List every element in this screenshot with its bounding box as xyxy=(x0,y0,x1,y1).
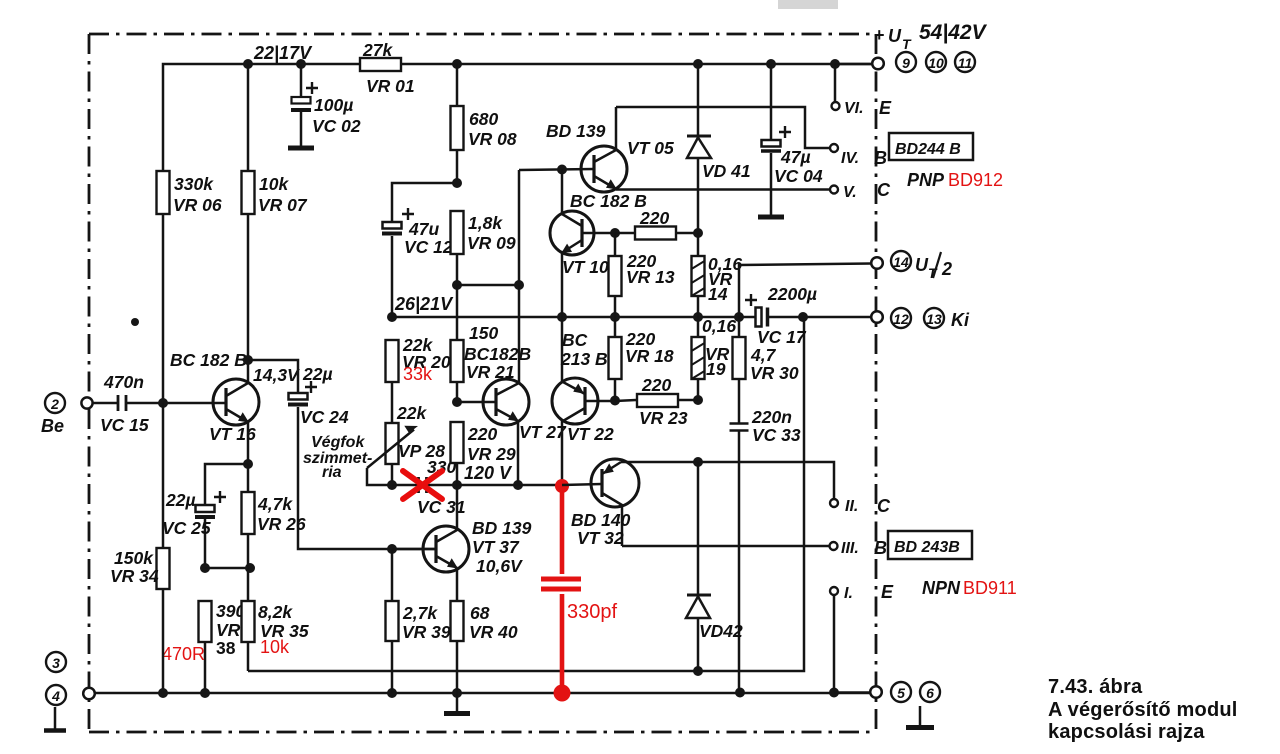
svg-text:VR 29: VR 29 xyxy=(467,444,516,464)
svg-text:VR 08: VR 08 xyxy=(468,129,517,149)
red capacitor plates xyxy=(541,579,581,589)
svg-text:VT 22: VT 22 xyxy=(567,424,614,444)
junction mid rail at VR14/VR19 xyxy=(693,312,703,322)
resistor VR21 150 xyxy=(456,285,459,340)
ground below VR40 xyxy=(456,693,459,712)
junction 120V rail at VR29/VT37 xyxy=(452,480,462,490)
svg-text:680: 680 xyxy=(469,109,498,129)
svg-text:7.43. ábra: 7.43. ábra xyxy=(1048,676,1143,698)
red junction on ground rail xyxy=(554,685,571,702)
svg-text:ria: ria xyxy=(322,464,342,481)
wire VR08 bottom node to VC12 xyxy=(392,183,457,222)
svg-text:14: 14 xyxy=(708,284,728,304)
svg-text:VR 13: VR 13 xyxy=(626,267,675,287)
wire: +UT top supply rail xyxy=(163,64,872,171)
resistor VR08 680 xyxy=(456,64,459,106)
svg-text:VR 39: VR 39 xyxy=(402,622,451,642)
capacitor VC24 22u electrolytic xyxy=(248,360,298,393)
ground symbol bottom left xyxy=(54,707,57,729)
transistor VT10 BC182B xyxy=(550,211,594,255)
svg-text:VC 12: VC 12 xyxy=(404,237,453,257)
wire pin I to ground rail xyxy=(833,595,836,692)
resistor VR09 1,8k xyxy=(451,211,464,254)
junction VR19 bottom node xyxy=(693,395,703,405)
pin IV open circle xyxy=(830,144,838,152)
svg-text:14: 14 xyxy=(893,254,909,270)
svg-text:VR 09: VR 09 xyxy=(467,233,516,253)
ground below VC04 xyxy=(758,215,784,220)
svg-text:Be: Be xyxy=(41,416,64,436)
junction mid rail at VR30 / terminal 14 branch xyxy=(734,312,744,322)
capacitor VC33 220n xyxy=(730,424,749,431)
terminal 5 circled number xyxy=(891,682,911,702)
svg-text:150: 150 xyxy=(469,323,498,343)
junction VR08/VR09/VC12 xyxy=(452,178,462,188)
junction top rail at VC04 xyxy=(766,59,776,69)
svg-text:213 B: 213 B xyxy=(560,349,608,369)
svg-text:4,7k: 4,7k xyxy=(257,494,293,514)
svg-text:VR: VR xyxy=(216,620,241,640)
resistor VR30 4,7 xyxy=(738,317,741,337)
svg-text:3: 3 xyxy=(52,655,60,671)
capacitor VC12 47u electrolytic xyxy=(383,222,402,229)
svg-text:2200µ: 2200µ xyxy=(767,284,817,304)
terminal 12 open circle xyxy=(871,311,883,323)
diode VD41 xyxy=(697,64,700,136)
junction rail A at VD42 xyxy=(693,666,703,676)
svg-text:VT 27: VT 27 xyxy=(519,422,567,442)
svg-text:BD 243B: BD 243B xyxy=(894,539,960,556)
junction VT10 base node xyxy=(610,228,620,238)
pin III open circle xyxy=(830,542,838,550)
svg-text:VC 04: VC 04 xyxy=(774,166,823,186)
junction rail B at VC33 column xyxy=(735,688,745,698)
svg-text:VT 32: VT 32 xyxy=(577,528,624,548)
resistor VR07 10k xyxy=(242,171,255,214)
junction rail B at pin I xyxy=(829,688,839,698)
svg-text:8,2k: 8,2k xyxy=(258,602,293,622)
wire link emitter divider node xyxy=(205,567,250,570)
svg-text:47u: 47u xyxy=(408,219,439,239)
ground below VC02 xyxy=(288,146,314,151)
resistor VR18 220 xyxy=(614,317,617,337)
svg-text:II.: II. xyxy=(845,498,858,515)
box BD244B xyxy=(889,133,973,160)
svg-text:VT 05: VT 05 xyxy=(627,138,674,158)
wire 120V rail xyxy=(457,484,562,487)
junction top rail at VR08 xyxy=(452,59,462,69)
svg-text:I.: I. xyxy=(844,585,853,602)
svg-text:11: 11 xyxy=(958,55,973,71)
resistor VR13 220 xyxy=(614,233,617,256)
svg-text:38: 38 xyxy=(216,638,236,658)
resistor VR35 8,2k xyxy=(247,568,250,601)
svg-text:33k: 33k xyxy=(403,364,433,384)
terminal 12 circled number xyxy=(891,308,911,328)
capacitor VC31 330 (crossed out) xyxy=(392,484,418,487)
svg-text:10,6V: 10,6V xyxy=(476,556,523,576)
transistor VT16 BC182B xyxy=(213,379,259,425)
svg-text:6: 6 xyxy=(926,685,934,701)
junction VT22 base node xyxy=(610,396,620,406)
wire VT32 emitter to pin II xyxy=(621,462,834,499)
svg-text:22k: 22k xyxy=(396,403,427,423)
svg-text:10: 10 xyxy=(928,55,944,71)
pin VI open circle xyxy=(832,102,840,110)
junction VR26/VR35 node xyxy=(245,563,255,573)
wire ground rail B xyxy=(94,692,870,695)
svg-text:kapcsolási rajza: kapcsolási rajza xyxy=(1048,721,1205,743)
svg-text:220: 220 xyxy=(641,375,671,395)
svg-text:150k: 150k xyxy=(114,548,154,568)
svg-text:C: C xyxy=(877,180,891,200)
svg-text:VR 30: VR 30 xyxy=(750,363,799,383)
svg-text:1,8k: 1,8k xyxy=(468,213,503,233)
junction 120V rail at VP28 xyxy=(387,480,397,490)
pin II open circle xyxy=(830,499,838,507)
terminal 3 circled number xyxy=(46,652,66,672)
wire top rail to terminal 9 xyxy=(835,63,872,66)
terminal 10 circled number xyxy=(926,52,946,72)
svg-text:BD 139: BD 139 xyxy=(472,518,532,538)
svg-text:T: T xyxy=(902,36,912,52)
capacitor VC02 100u electrolytic xyxy=(300,64,303,97)
junction VT16 emitter node xyxy=(243,459,253,469)
junction top rail at VD41 xyxy=(693,59,703,69)
resistor VR34 150k xyxy=(162,403,165,548)
svg-text:BD912: BD912 xyxy=(948,170,1003,190)
svg-text:10k: 10k xyxy=(260,637,290,657)
transistor VT32 BD140 xyxy=(591,459,639,507)
junction VR09 bottom xyxy=(452,280,462,290)
svg-text:2,7k: 2,7k xyxy=(402,603,438,623)
svg-text:9: 9 xyxy=(902,55,910,71)
stray junction dot xyxy=(131,318,139,326)
svg-text:22µ: 22µ xyxy=(165,490,196,510)
transistor VT27 BC182B xyxy=(483,379,529,425)
red junction 120V rail / VT32 base xyxy=(555,479,569,493)
svg-text:E: E xyxy=(881,582,894,602)
svg-text:VR 21: VR 21 xyxy=(466,362,515,382)
capacitor VC17 2200u electrolytic xyxy=(756,308,762,327)
terminal 9 open circle xyxy=(872,58,884,70)
junction 120V rail at VT27 emitter xyxy=(513,480,523,490)
resistor VR40 68 xyxy=(451,601,464,641)
pin V open circle xyxy=(830,186,838,194)
capacitor VC04 47u electrolytic xyxy=(770,64,773,140)
svg-text:+: + xyxy=(874,25,885,45)
junction VC25/VR38 node xyxy=(200,563,210,573)
svg-text:VR 23: VR 23 xyxy=(639,408,688,428)
svg-text:V.: V. xyxy=(843,184,857,201)
svg-text:0,16: 0,16 xyxy=(702,316,736,336)
svg-text:VC 15: VC 15 xyxy=(100,415,149,435)
svg-text:BD 140: BD 140 xyxy=(571,510,631,530)
terminal 14 circled number xyxy=(891,251,911,271)
junction top rail at pin VI branch xyxy=(830,59,840,69)
junction top rail at VR07 xyxy=(243,59,253,69)
red replacement capacitor 330pf wire xyxy=(560,487,565,693)
wire VR07 bottom to VT16 collector node xyxy=(247,214,250,360)
terminal 11 circled number xyxy=(955,52,975,72)
svg-text:26|21V: 26|21V xyxy=(394,294,454,314)
svg-text:VR 07: VR 07 xyxy=(258,195,308,215)
svg-text:B: B xyxy=(874,148,887,168)
junction rail B at VR34 xyxy=(158,688,168,698)
svg-text:PNP: PNP xyxy=(907,170,945,190)
capacitor VC25 22u electrolytic xyxy=(205,464,248,505)
svg-text:VT 37: VT 37 xyxy=(472,537,520,557)
wire VT16 emitter xyxy=(247,422,250,464)
junction rail B at VR38 xyxy=(200,688,210,698)
resistor VR06 330k xyxy=(157,171,170,214)
svg-text:VR 06: VR 06 xyxy=(173,195,222,215)
svg-text:BD911: BD911 xyxy=(963,578,1017,598)
junction rail B at VR40 xyxy=(452,688,462,698)
svg-text:19: 19 xyxy=(706,359,726,379)
terminal 14 open circle xyxy=(871,257,883,269)
wire terminal 14 branch xyxy=(739,264,871,318)
svg-text:Ki: Ki xyxy=(951,310,970,330)
module boundary dash-dot frame xyxy=(89,34,876,732)
svg-text:VD42: VD42 xyxy=(699,621,743,641)
diode VD42 xyxy=(697,462,700,595)
svg-text:220: 220 xyxy=(639,208,669,228)
svg-text:VR 34: VR 34 xyxy=(110,566,159,586)
svg-text:BC: BC xyxy=(562,330,588,350)
terminal 13 circled number xyxy=(924,308,944,328)
svg-text:470n: 470n xyxy=(103,372,144,392)
svg-text:Végfok: Végfok xyxy=(311,434,365,451)
wire VT32 collector to pin III xyxy=(622,545,829,548)
svg-text:47µ: 47µ xyxy=(780,147,811,167)
svg-text:10k: 10k xyxy=(259,174,289,194)
junction top rail at VC02 xyxy=(296,59,306,69)
svg-text:27k: 27k xyxy=(362,40,393,60)
terminal 5 open circle xyxy=(870,686,882,698)
svg-text:12: 12 xyxy=(893,311,909,327)
wire feedback rail A xyxy=(248,317,804,671)
svg-text:4,7: 4,7 xyxy=(750,345,777,365)
svg-text:VD 41: VD 41 xyxy=(702,161,751,181)
resistor VR39 2,7k xyxy=(391,549,394,601)
svg-text:VC 33: VC 33 xyxy=(752,425,801,445)
resistor VR26 4,7k xyxy=(247,464,250,492)
svg-text:BD 139: BD 139 xyxy=(546,121,606,141)
svg-text:470R: 470R xyxy=(162,644,205,664)
junction VT37 base rail at VR39 column xyxy=(387,544,397,554)
junction VT05 base / VT10 collector xyxy=(557,165,567,175)
svg-text:2: 2 xyxy=(941,259,952,279)
svg-text:4: 4 xyxy=(51,688,60,704)
transistor VT05 BD139 xyxy=(581,146,627,192)
junction rail B at VR39 xyxy=(387,688,397,698)
terminal 2 open circle xyxy=(81,397,92,408)
scan artifact gray strip xyxy=(778,0,838,9)
junction mid rail at feedback column xyxy=(798,312,808,322)
svg-text:VR 40: VR 40 xyxy=(469,622,518,642)
wire input to VC15 xyxy=(92,402,117,405)
potentiometer VP28 22k trimmer xyxy=(391,382,394,423)
svg-text:VC 25: VC 25 xyxy=(162,518,211,538)
svg-text:IV.: IV. xyxy=(841,150,859,167)
resistor VR23 220 (horizontal) xyxy=(615,400,637,401)
svg-text:330pf: 330pf xyxy=(567,601,617,623)
svg-text:B: B xyxy=(874,538,887,558)
svg-text:U: U xyxy=(915,255,929,275)
svg-text:A végerősítő modul: A végerősítő modul xyxy=(1048,699,1238,721)
svg-text:22µ: 22µ xyxy=(302,364,333,384)
svg-text:5: 5 xyxy=(897,685,905,701)
svg-text:BC 182 B: BC 182 B xyxy=(170,350,247,370)
wire VC15 to base node xyxy=(127,402,226,405)
svg-text:VC 24: VC 24 xyxy=(300,407,349,427)
box BD243B xyxy=(888,531,972,559)
svg-text:VR 26: VR 26 xyxy=(257,514,306,534)
svg-text:VR 18: VR 18 xyxy=(625,346,674,366)
svg-text:III.: III. xyxy=(841,540,859,557)
wire pin VI branch xyxy=(834,64,837,102)
terminal 4 open circle on border xyxy=(83,688,95,700)
wire VR07 top xyxy=(247,64,250,171)
terminal 2 circled number xyxy=(45,393,65,413)
svg-text:VR 01: VR 01 xyxy=(366,76,415,96)
svg-text:BC 182 B: BC 182 B xyxy=(570,191,647,211)
transistor VT22 BC213B xyxy=(552,378,598,424)
resistor VR01 27k xyxy=(360,58,401,71)
svg-text:NPN: NPN xyxy=(922,578,961,598)
svg-text:68: 68 xyxy=(470,603,490,623)
terminal 6 circled number xyxy=(920,682,940,702)
junction VT05 base riser / VT27 collector xyxy=(514,280,524,290)
svg-text:220: 220 xyxy=(467,424,497,444)
svg-text:54|42V: 54|42V xyxy=(919,21,988,44)
resistor VR29 220 xyxy=(451,422,464,463)
ground symbol bottom right xyxy=(919,706,922,726)
wire VR09 node to VT05 base riser xyxy=(457,170,519,285)
svg-text:E: E xyxy=(879,98,892,118)
svg-text:VI.: VI. xyxy=(844,100,864,117)
red X cross-out over VC31 xyxy=(403,471,442,499)
wire VT05 base xyxy=(519,169,594,170)
svg-text:BC182B: BC182B xyxy=(464,344,531,364)
svg-text:14,3V: 14,3V xyxy=(253,365,300,385)
svg-text:13: 13 xyxy=(926,311,942,327)
svg-text:VT 10: VT 10 xyxy=(562,257,609,277)
resistor VR20 22k xyxy=(386,340,399,382)
junction VT27 base xyxy=(452,397,462,407)
svg-text:330k: 330k xyxy=(174,174,214,194)
wire mid voltage rail xyxy=(392,316,871,319)
wire VT05 emitter to pin V xyxy=(616,188,830,191)
junction VD41 anode node xyxy=(693,228,703,238)
svg-text:220n: 220n xyxy=(751,407,792,427)
svg-text:120 V: 120 V xyxy=(464,463,513,483)
wire VR06 bottom to input node xyxy=(162,214,165,403)
capacitor VC15 470n xyxy=(118,395,126,411)
junction mid rail at VC12/VR20 xyxy=(387,312,397,322)
svg-text:VC 17: VC 17 xyxy=(757,327,807,347)
svg-text:VC 02: VC 02 xyxy=(312,116,361,136)
svg-text:100µ: 100µ xyxy=(314,95,353,115)
terminal 9 circled number xyxy=(896,52,916,72)
pin I open circle xyxy=(830,587,838,595)
wire ground rail to terminal 5 xyxy=(834,691,870,694)
wire VT16 collector xyxy=(247,360,250,383)
junction VT16 collector node xyxy=(243,355,253,365)
junction pin II line at VD42 xyxy=(693,457,703,467)
resistor VR14 0,16 (power) xyxy=(697,233,700,256)
junction mid rail at VR13/VR18 xyxy=(610,312,620,322)
junction mid rail at VT10/VT22 emitters xyxy=(557,312,567,322)
svg-text:U: U xyxy=(888,26,902,46)
junction input node at VR06 xyxy=(158,398,168,408)
svg-text:22|17V: 22|17V xyxy=(253,43,313,63)
resistor VR19 0,16 (power) xyxy=(697,317,700,337)
resistor 220 bias (horizontal) xyxy=(615,232,635,235)
svg-text:2: 2 xyxy=(50,396,59,412)
terminal 4 circled number xyxy=(46,685,66,705)
resistor VR38 390 xyxy=(199,601,212,642)
transistor VT37 BD139 xyxy=(423,526,469,572)
svg-text:C: C xyxy=(877,496,891,516)
wire VT05 collector to pin IV xyxy=(616,107,830,148)
svg-text:BD244 B: BD244 B xyxy=(895,141,961,158)
